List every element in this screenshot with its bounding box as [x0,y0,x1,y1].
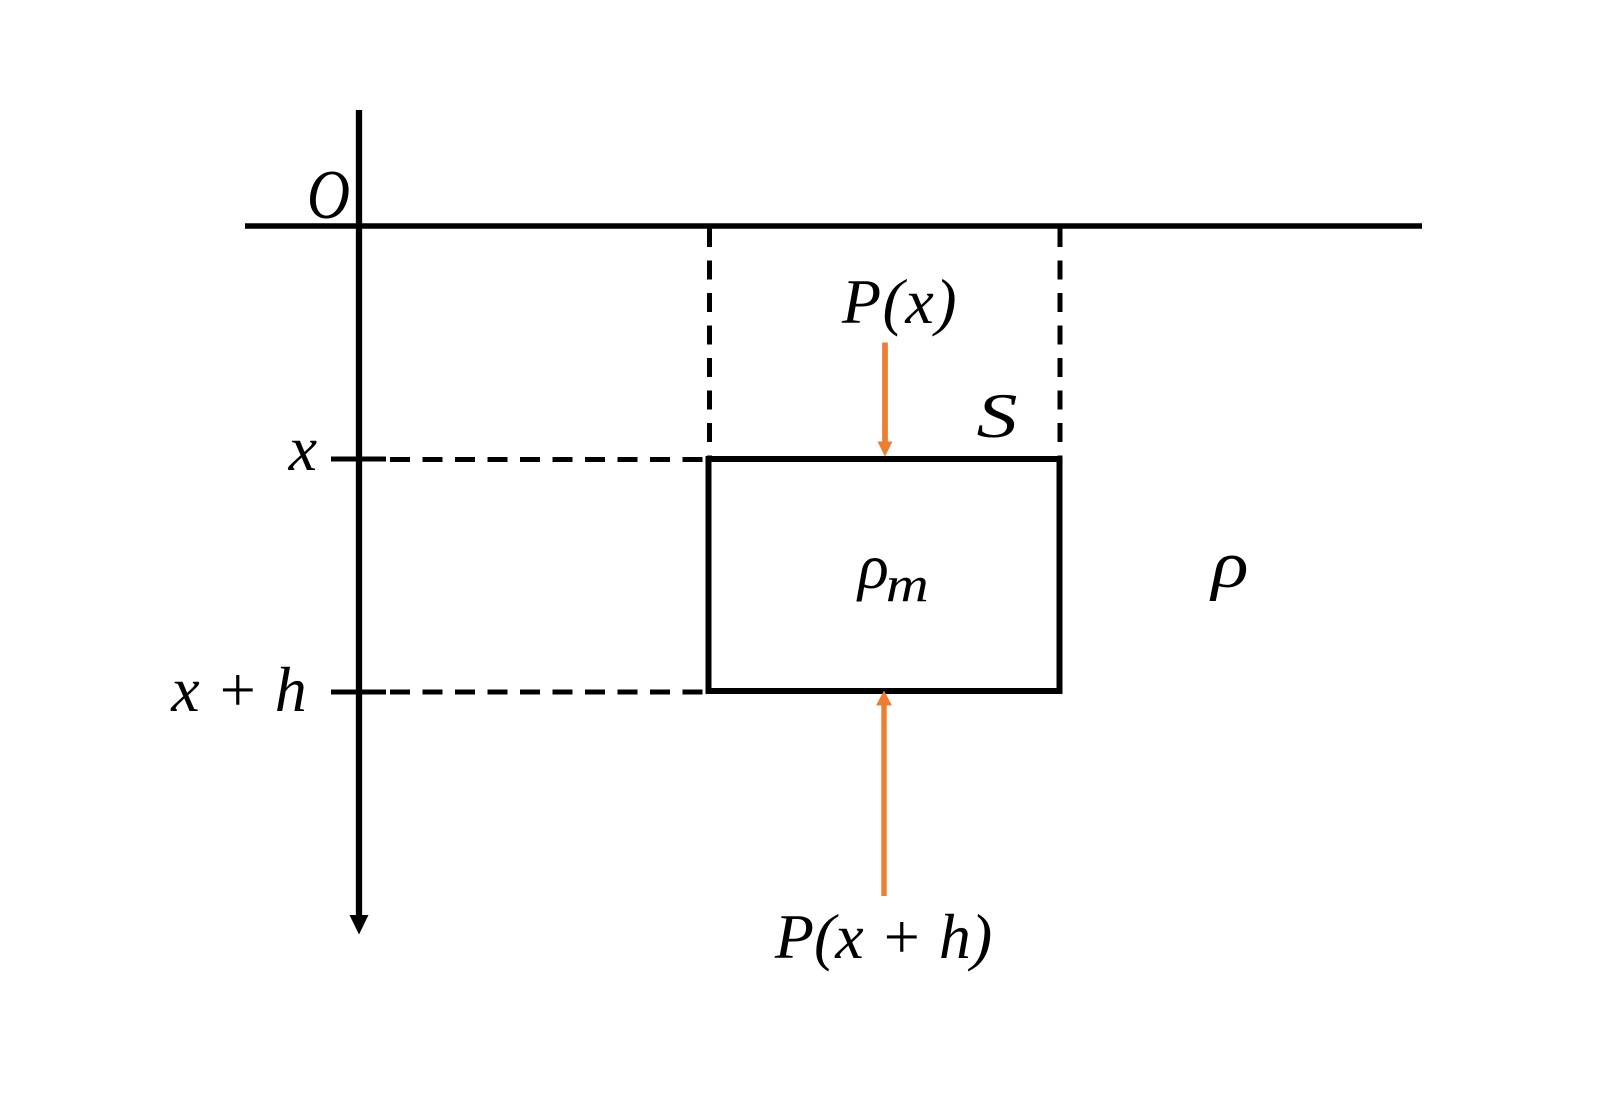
svg-text:O: O [307,157,350,234]
svg-text:S: S [977,380,1018,451]
svg-text:x + h: x + h [170,654,307,725]
svg-text:ρ: ρ [1209,528,1248,602]
svg-text:P(x): P(x) [841,266,958,337]
svg-text:P(x + h): P(x + h) [774,901,992,972]
svg-text:x: x [288,413,317,484]
